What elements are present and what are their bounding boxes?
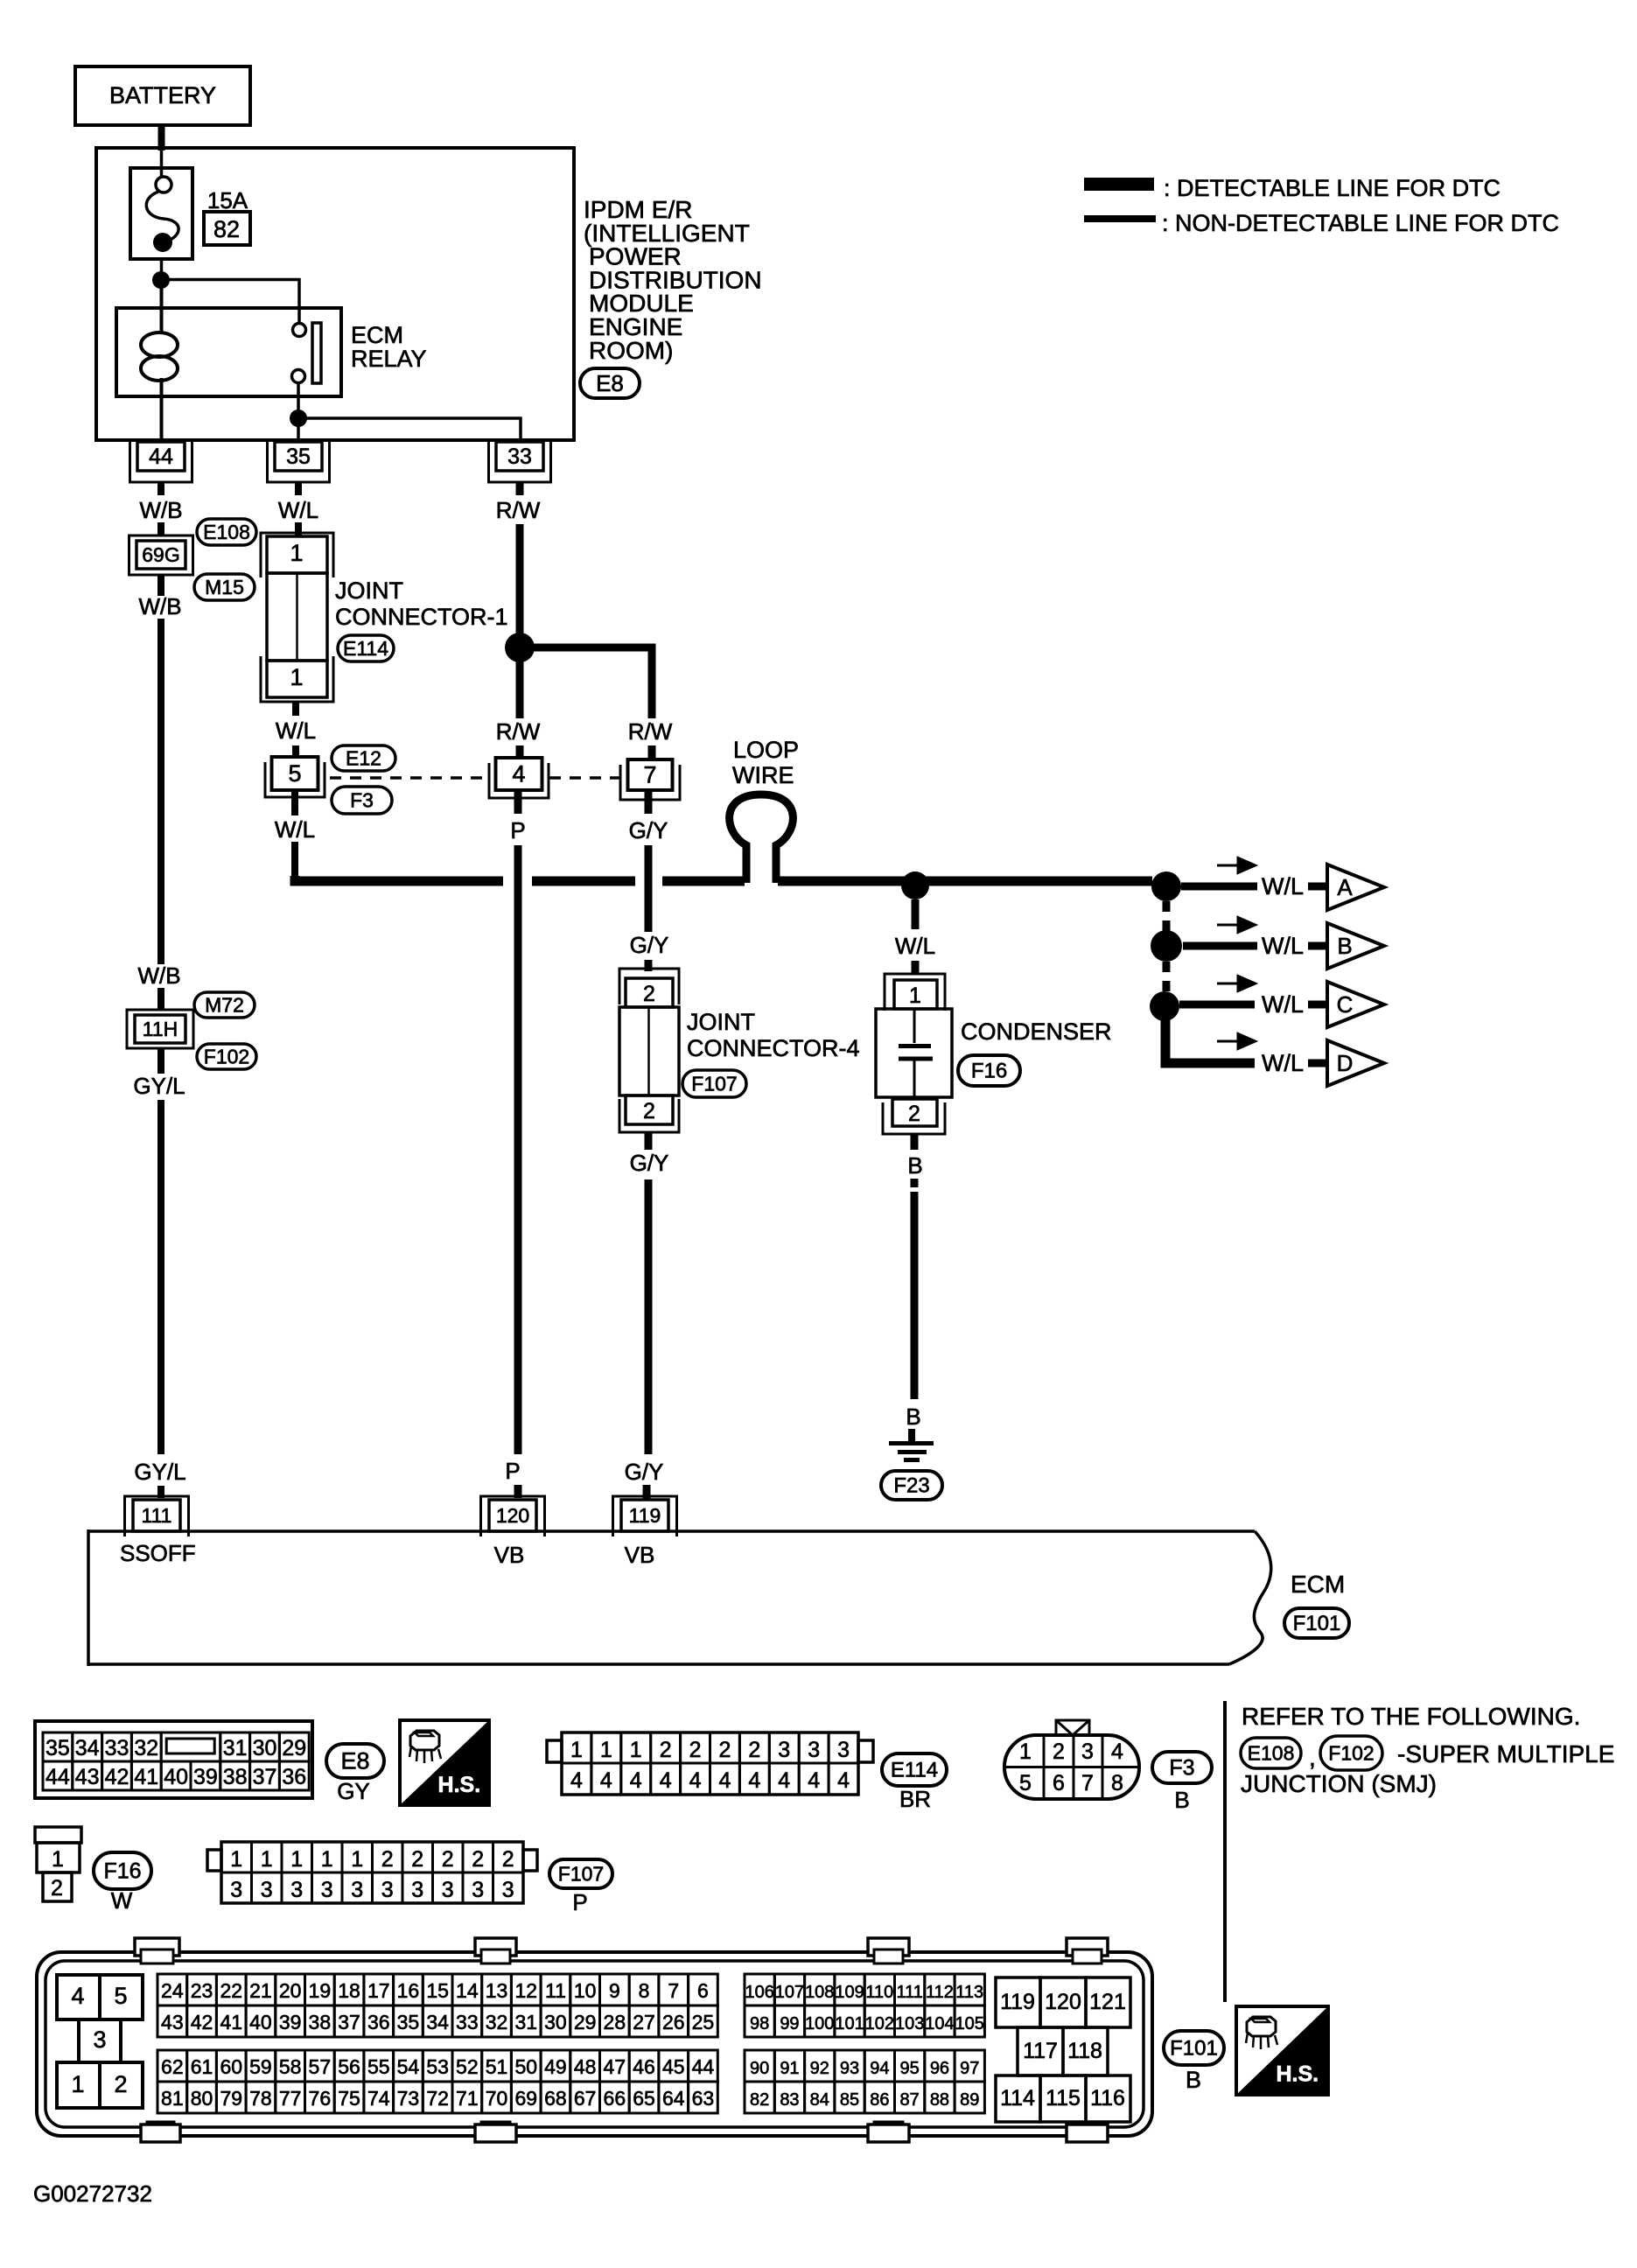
svg-text:2: 2	[51, 1876, 63, 1900]
svg-text:92: 92	[810, 2059, 829, 2078]
svg-text:M72: M72	[205, 993, 244, 1016]
svg-text:B: B	[1186, 2067, 1201, 2093]
off-page arrow C	[1327, 982, 1384, 1027]
svg-text:101: 101	[835, 2014, 864, 2033]
svg-text:19: 19	[309, 1979, 332, 2002]
svg-text:F16: F16	[971, 1060, 1007, 1083]
wire bus segment 2	[532, 877, 635, 886]
connector oval E8 face	[326, 1744, 384, 1778]
svg-text:JUNCTION (SMJ): JUNCTION (SMJ)	[1241, 1770, 1437, 1797]
pin 111 SSOFF	[125, 1496, 189, 1536]
svg-text:55: 55	[367, 2055, 390, 2078]
svg-text:68: 68	[544, 2087, 567, 2110]
svg-text:40: 40	[249, 2011, 272, 2033]
svg-text:88: 88	[930, 2090, 949, 2110]
svg-text:73: 73	[397, 2087, 420, 2110]
svg-text:REFER TO THE FOLLOWING.: REFER TO THE FOLLOWING.	[1242, 1703, 1580, 1730]
wire W/L to arrow A	[1181, 883, 1257, 891]
svg-text:39: 39	[279, 2011, 302, 2033]
svg-text:36: 36	[367, 2011, 390, 2033]
svg-text:W: W	[111, 1887, 133, 1914]
svg-text:W/L: W/L	[275, 816, 315, 843]
svg-text:3: 3	[261, 1878, 273, 1902]
svg-text:121: 121	[1089, 1990, 1126, 2014]
svg-text:18: 18	[338, 1979, 360, 2002]
svg-text:BR: BR	[899, 1786, 931, 1812]
svg-text:2: 2	[660, 1738, 672, 1762]
svg-text:79: 79	[220, 2087, 242, 2110]
svg-text:E8: E8	[596, 370, 624, 396]
svg-text:F102: F102	[1328, 1741, 1374, 1764]
svg-text:25: 25	[692, 2011, 715, 2033]
dashed harness line 4-7	[549, 776, 620, 780]
junction node below relay	[290, 409, 307, 427]
svg-text:33: 33	[105, 1736, 129, 1760]
svg-text:ROOM): ROOM)	[589, 337, 673, 364]
svg-text:16: 16	[397, 1979, 420, 2002]
svg-text:120: 120	[1045, 1990, 1081, 2014]
svg-text:104: 104	[925, 2014, 954, 2033]
svg-text:M15: M15	[205, 576, 244, 598]
wire bus segment 3	[662, 877, 745, 886]
svg-text:ECM: ECM	[351, 322, 403, 348]
svg-text:3: 3	[321, 1878, 333, 1902]
wire P conn4 down to ECM	[514, 790, 522, 814]
svg-text:B: B	[1337, 933, 1352, 959]
svg-text:2: 2	[718, 1738, 731, 1762]
svg-text:67: 67	[574, 2087, 597, 2110]
svg-text:VB: VB	[625, 1542, 655, 1568]
svg-text:11: 11	[545, 1979, 566, 2002]
svg-text:BATTERY: BATTERY	[109, 82, 216, 108]
svg-text:90: 90	[750, 2059, 769, 2078]
svg-text:WIRE: WIRE	[732, 762, 794, 788]
svg-text:28: 28	[604, 2011, 626, 2033]
separator line	[1223, 1701, 1227, 2002]
svg-text:22: 22	[220, 1979, 242, 2002]
junction node R/W	[505, 633, 535, 662]
wire junction to pin 35	[297, 426, 300, 442]
off-page arrow B	[1327, 923, 1384, 969]
wire elbow C to D	[1165, 1019, 1255, 1063]
svg-text:52: 52	[456, 2055, 479, 2078]
svg-text:7: 7	[643, 762, 656, 788]
svg-text:3: 3	[837, 1738, 850, 1762]
svg-text:4: 4	[570, 1768, 583, 1793]
IPDM E/R box E8	[96, 148, 574, 440]
svg-text:34: 34	[75, 1736, 100, 1760]
svg-text:W/L: W/L	[895, 933, 935, 959]
svg-text:111: 111	[896, 1983, 922, 2002]
svg-text:F101: F101	[1293, 1612, 1341, 1635]
svg-text:CONNECTOR-1: CONNECTOR-1	[335, 604, 508, 630]
svg-text:W/L: W/L	[1262, 873, 1304, 899]
connector oval F102	[197, 1044, 256, 1069]
svg-text:4: 4	[71, 1983, 84, 2009]
svg-text:42: 42	[191, 2011, 213, 2033]
svg-text:F107: F107	[691, 1072, 737, 1095]
svg-text:58: 58	[279, 2055, 302, 2078]
svg-text:119: 119	[629, 1504, 661, 1527]
svg-text:ECM: ECM	[1291, 1571, 1345, 1598]
svg-text:2: 2	[689, 1738, 702, 1762]
svg-text:1: 1	[351, 1847, 363, 1872]
pin 44	[130, 442, 192, 482]
svg-text:119: 119	[1000, 1990, 1035, 2014]
wire B condenser to ground	[911, 1134, 919, 1150]
svg-text:81: 81	[161, 2087, 184, 2110]
svg-text:6: 6	[697, 1979, 709, 2002]
svg-text:59: 59	[249, 2055, 272, 2078]
svg-text:35: 35	[397, 2011, 420, 2033]
svg-text:86: 86	[870, 2090, 889, 2110]
connector face E114	[562, 1732, 858, 1795]
pin box 82	[204, 212, 250, 245]
svg-text:75: 75	[338, 2087, 360, 2110]
svg-text:W/B: W/B	[137, 962, 180, 989]
svg-text:W/L: W/L	[1262, 991, 1304, 1018]
svg-text:4: 4	[1111, 1739, 1123, 1764]
svg-text:R/W: R/W	[628, 718, 673, 745]
svg-text:3: 3	[290, 1878, 303, 1902]
svg-text:91: 91	[780, 2059, 799, 2078]
wire stub B	[1308, 942, 1328, 950]
svg-text:2: 2	[411, 1847, 423, 1872]
svg-text:26: 26	[662, 2011, 685, 2033]
svg-text:1: 1	[261, 1847, 273, 1872]
svg-text:64: 64	[662, 2087, 685, 2110]
connector oval E114	[338, 635, 394, 661]
svg-text:: NON-DETECTABLE LINE FOR DTC: : NON-DETECTABLE LINE FOR DTC	[1162, 210, 1559, 236]
svg-text:B: B	[906, 1403, 920, 1430]
wire IPDM top to fuse	[160, 150, 164, 177]
svg-text:95: 95	[900, 2059, 920, 2078]
svg-text:102: 102	[865, 2014, 894, 2033]
wire B stub	[908, 1429, 915, 1442]
svg-text:40: 40	[164, 1765, 188, 1789]
svg-text:120: 120	[496, 1504, 529, 1527]
svg-text:84: 84	[810, 2090, 829, 2110]
svg-text:1: 1	[52, 1847, 64, 1872]
svg-text:4: 4	[630, 1768, 642, 1793]
F101 pins 114-121	[996, 1977, 1040, 2027]
svg-text:1: 1	[321, 1847, 333, 1872]
svg-text:37: 37	[253, 1765, 277, 1789]
connector face F3	[1004, 1735, 1139, 1799]
condenser F16	[885, 974, 945, 1011]
svg-text:100: 100	[805, 2014, 834, 2033]
svg-text:23: 23	[191, 1979, 213, 2002]
wire junction down into coil	[160, 287, 164, 334]
connector oval F23	[881, 1471, 942, 1500]
svg-text:33: 33	[456, 2011, 479, 2033]
arrow head A small	[1217, 864, 1242, 867]
svg-text:63: 63	[692, 2087, 715, 2110]
svg-text:G00272732: G00272732	[33, 2180, 152, 2207]
svg-text:W/L: W/L	[1262, 933, 1304, 959]
svg-text:1: 1	[290, 664, 303, 690]
svg-text:83: 83	[780, 2090, 799, 2110]
svg-text:3: 3	[502, 1878, 514, 1902]
svg-text:24: 24	[161, 1979, 184, 2002]
svg-text:4: 4	[512, 761, 525, 787]
svg-text:G/Y: G/Y	[625, 1459, 664, 1485]
svg-text:11H: 11H	[143, 1018, 178, 1040]
svg-text:F3: F3	[350, 788, 374, 811]
svg-text:66: 66	[604, 2087, 626, 2110]
svg-text:38: 38	[309, 2011, 332, 2033]
svg-text:48: 48	[574, 2055, 597, 2078]
svg-text:111: 111	[142, 1504, 172, 1527]
svg-text:P: P	[572, 1889, 587, 1915]
svg-text:3: 3	[381, 1878, 394, 1902]
svg-text:108: 108	[805, 1983, 834, 2002]
svg-text:E8: E8	[340, 1748, 369, 1774]
svg-text:: DETECTABLE LINE FOR DTC: : DETECTABLE LINE FOR DTC	[1164, 175, 1501, 201]
svg-text:113: 113	[955, 1983, 983, 2002]
connector oval F107 face	[549, 1859, 612, 1888]
svg-text:4: 4	[748, 1768, 760, 1793]
svg-text:45: 45	[662, 2055, 685, 2078]
connector oval F16	[958, 1055, 1020, 1086]
svg-text:85: 85	[840, 2090, 859, 2110]
connector face E8	[35, 1721, 312, 1798]
connector oval M72	[194, 992, 255, 1018]
svg-text:F102: F102	[204, 1045, 249, 1067]
SMJ connector 69G	[129, 535, 193, 575]
svg-text:110: 110	[865, 1983, 893, 2002]
svg-text:105: 105	[955, 2014, 984, 2033]
svg-text:15: 15	[426, 1979, 449, 2002]
svg-text:4: 4	[778, 1768, 790, 1793]
svg-text:36: 36	[282, 1765, 306, 1789]
svg-text:2: 2	[908, 1102, 920, 1126]
svg-text:43: 43	[75, 1765, 100, 1789]
arrow head B small	[1217, 924, 1242, 927]
svg-text:2: 2	[381, 1847, 394, 1872]
wire W/L dashes to condenser	[912, 899, 920, 929]
svg-text:E114: E114	[891, 1759, 938, 1782]
svg-text:78: 78	[249, 2087, 272, 2110]
svg-text:118: 118	[1067, 2039, 1102, 2063]
wire stub C	[1308, 1001, 1328, 1009]
svg-text:69G: 69G	[142, 543, 179, 566]
wire coil to pin 44	[160, 378, 164, 442]
svg-text:SSOFF: SSOFF	[120, 1540, 196, 1566]
connector oval E8	[580, 368, 640, 398]
svg-text:103: 103	[895, 2014, 924, 2033]
connector oval F3 face	[1152, 1752, 1212, 1783]
svg-text:117: 117	[1023, 2039, 1058, 2063]
svg-text:4: 4	[837, 1768, 850, 1793]
svg-text:GY/L: GY/L	[134, 1459, 185, 1485]
svg-text:106: 106	[745, 1983, 773, 2002]
svg-text:7: 7	[668, 1979, 679, 2002]
wire stub D	[1308, 1060, 1328, 1067]
wire R/W junction to conn4	[516, 647, 524, 718]
svg-text:93: 93	[840, 2059, 859, 2078]
svg-text:F101: F101	[1170, 2037, 1218, 2061]
svg-text:49: 49	[544, 2055, 567, 2078]
svg-text:60: 60	[220, 2055, 242, 2078]
svg-text:32: 32	[134, 1736, 158, 1760]
svg-text:1: 1	[290, 1847, 303, 1872]
svg-text:1: 1	[71, 2071, 84, 2097]
svg-text:44: 44	[45, 1765, 70, 1789]
svg-text:R/W: R/W	[496, 497, 541, 523]
connector oval F3	[332, 787, 392, 814]
wire junction to relay contact	[161, 280, 299, 324]
svg-text:4: 4	[808, 1768, 820, 1793]
svg-text:D: D	[1337, 1050, 1354, 1076]
wire G/Y JC4 to ECM	[645, 1132, 653, 1150]
svg-text:JOINT: JOINT	[687, 1009, 755, 1035]
svg-text:GY: GY	[337, 1778, 370, 1804]
junction node C	[1150, 991, 1179, 1021]
svg-text:C: C	[1337, 991, 1354, 1018]
svg-text:112: 112	[926, 1983, 954, 2002]
svg-text:31: 31	[223, 1736, 248, 1760]
wire W/L pin35 to JC1	[295, 482, 302, 495]
svg-text:51: 51	[486, 2055, 508, 2078]
svg-text:44: 44	[149, 444, 173, 469]
battery B1	[75, 66, 250, 125]
svg-text:1: 1	[290, 540, 303, 566]
svg-text:2: 2	[502, 1847, 514, 1872]
svg-text:5: 5	[288, 760, 301, 787]
svg-text:3: 3	[93, 2026, 106, 2053]
svg-text:RELAY: RELAY	[351, 346, 427, 372]
svg-text:56: 56	[338, 2055, 360, 2078]
svg-text:1: 1	[230, 1847, 242, 1872]
connector oval F101 face	[1164, 2031, 1224, 2065]
svg-text:LOOP: LOOP	[733, 737, 799, 763]
svg-text:41: 41	[220, 2011, 242, 2033]
svg-text:P: P	[510, 817, 525, 843]
svg-text:W/L: W/L	[276, 717, 316, 744]
svg-text:E108: E108	[203, 521, 250, 543]
svg-text:VB: VB	[494, 1542, 525, 1568]
svg-text:2: 2	[472, 1847, 484, 1872]
svg-text:54: 54	[397, 2055, 420, 2078]
svg-text:109: 109	[835, 1983, 864, 2002]
svg-text:GY/L: GY/L	[133, 1073, 185, 1099]
svg-text:7: 7	[1081, 1771, 1094, 1795]
svg-text:14: 14	[456, 1979, 479, 2002]
svg-text:2: 2	[114, 2071, 127, 2097]
svg-text:30: 30	[544, 2011, 567, 2033]
svg-text:3: 3	[808, 1738, 820, 1762]
svg-text:2: 2	[442, 1847, 454, 1872]
svg-text:69: 69	[514, 2087, 537, 2110]
connector oval E108 note	[1241, 1738, 1301, 1768]
svg-text:W/B: W/B	[139, 497, 182, 523]
off-page arrow D	[1327, 1040, 1384, 1086]
wire stub A	[1308, 883, 1328, 891]
svg-text:38: 38	[223, 1765, 248, 1789]
svg-text:29: 29	[282, 1736, 306, 1760]
svg-text:96: 96	[930, 2059, 949, 2078]
svg-text:80: 80	[191, 2087, 213, 2110]
joint connector-1 E114	[261, 533, 333, 577]
pin 120 VB	[481, 1496, 545, 1536]
connector face F16	[35, 1827, 81, 1843]
svg-text:61: 61	[191, 2055, 213, 2078]
svg-text:6: 6	[1053, 1771, 1065, 1795]
svg-text:1: 1	[909, 983, 921, 1008]
svg-text:9: 9	[609, 1979, 620, 2002]
pin 35	[268, 442, 330, 482]
connector oval F102 note	[1320, 1736, 1382, 1770]
svg-text:3: 3	[778, 1738, 790, 1762]
svg-text:114: 114	[1000, 2086, 1035, 2110]
off-page arrow A	[1327, 864, 1384, 910]
svg-text:62: 62	[161, 2055, 184, 2078]
wire battery to IPDM (thick W)	[158, 125, 165, 150]
svg-text:3: 3	[230, 1878, 242, 1902]
svg-text:3: 3	[351, 1878, 363, 1902]
wire G/Y conn7 down	[645, 790, 653, 814]
svg-text:29: 29	[574, 2011, 597, 2033]
dashed harness line 5-4	[330, 776, 487, 780]
svg-text:30: 30	[253, 1736, 277, 1760]
arrow head D small	[1217, 1040, 1242, 1043]
svg-text:37: 37	[338, 2011, 360, 2033]
svg-text:2: 2	[748, 1738, 760, 1762]
svg-text:107: 107	[775, 1983, 804, 2002]
relay contact circles	[293, 324, 306, 337]
svg-text:20: 20	[279, 1979, 302, 2002]
svg-text:W/B: W/B	[138, 593, 181, 619]
wire contact to junction 2	[297, 382, 300, 418]
junction node B	[1151, 930, 1182, 962]
F101 grid pins 6-81	[157, 1974, 187, 2005]
svg-text:3: 3	[1081, 1739, 1094, 1764]
SMJ connector 11H	[127, 1010, 193, 1048]
svg-text:35: 35	[286, 444, 311, 469]
dashed wire A-B	[1163, 901, 1171, 931]
svg-text:33: 33	[507, 444, 532, 469]
dashed wire B-C	[1163, 962, 1171, 992]
connector oval E108	[197, 519, 256, 545]
svg-text:4: 4	[689, 1768, 702, 1793]
svg-text:E108: E108	[1248, 1741, 1295, 1764]
wire junction to pin 33	[298, 418, 521, 442]
wire W/B 69G to 11H	[157, 575, 164, 596]
svg-text:3: 3	[411, 1878, 423, 1902]
svg-text:74: 74	[367, 2087, 390, 2110]
H.S. logo top	[400, 1720, 489, 1805]
svg-text:42: 42	[105, 1765, 129, 1789]
svg-text:115: 115	[1046, 2086, 1081, 2110]
svg-text:27: 27	[633, 2011, 655, 2033]
F101 large pins 4 5 3 1 2	[57, 1975, 100, 2019]
connector oval E114 face	[882, 1753, 947, 1786]
ECM box F101	[88, 1529, 1255, 1533]
connector 7 E12/F3	[620, 765, 680, 800]
loop wire	[730, 794, 794, 883]
svg-text:3: 3	[472, 1878, 484, 1902]
svg-text:G/Y: G/Y	[630, 1150, 669, 1176]
svg-text:A: A	[1337, 874, 1353, 900]
ECM relay box	[116, 308, 341, 396]
svg-text:E12: E12	[346, 746, 381, 769]
wire W/L to arrow B	[1183, 942, 1257, 950]
svg-text:89: 89	[960, 2090, 979, 2110]
svg-text:21: 21	[249, 1979, 272, 2002]
junction node below fuse	[152, 271, 170, 289]
svg-text:39: 39	[193, 1765, 218, 1789]
